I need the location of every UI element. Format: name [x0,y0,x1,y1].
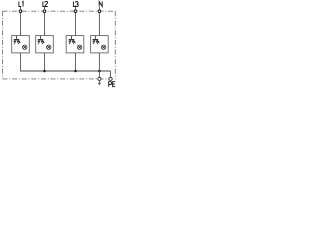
wire F1 bottom to PE bus [20,53,22,72]
wire F3 bottom to PE bus [75,53,77,71]
SPD module F1 box [12,36,30,53]
wire L1 lead [20,7,22,36]
PE bus wire [21,70,111,72]
SPD F1 status indicator [23,45,27,49]
earth direction arrow [98,81,101,86]
wire bus to PE terminal [110,71,112,77]
label L3 [73,2,76,7]
label N [99,2,102,7]
terminal L3 [74,10,77,13]
device boundary right edge (dash-dot) [114,11,116,79]
terminal earth (left) [98,77,101,80]
wire L3 lead [75,7,77,36]
label L2 [43,2,46,7]
terminal L2 [43,10,46,13]
SPD module F4 box [91,36,109,53]
SPD module F2 box [36,36,54,53]
wire L2 lead [44,7,46,36]
SPD F3 varistor-disconnector symbol [69,36,76,45]
device boundary left edge (dash-dot) [2,11,4,79]
SPD F3 status indicator [77,45,81,49]
label L1 [19,2,21,7]
SPD F1 varistor-disconnector symbol [14,36,21,45]
wire N lead [98,7,100,36]
SPD F4 varistor-disconnector symbol [93,36,100,45]
SPD F4 status indicator [101,45,105,49]
terminal PE (right) [109,77,112,80]
SPD F2 status indicator [47,45,51,49]
junction F4/bus [98,70,101,73]
wire F4 bottom to PE bus [98,53,100,71]
label PE [109,82,112,87]
wire bus to earth terminal [98,71,100,77]
wire F2 bottom to PE bus [44,53,46,71]
SPD module F3 box [66,36,84,53]
terminal N [98,10,101,13]
junction F3/bus [74,70,77,73]
junction F2/bus [43,70,46,73]
device boundary top edge (dash-dot) [3,10,116,12]
device boundary bottom edge / PE line (dash-dot) [3,78,116,80]
terminal L1 [19,10,22,13]
SPD F2 varistor-disconnector symbol [38,36,45,45]
